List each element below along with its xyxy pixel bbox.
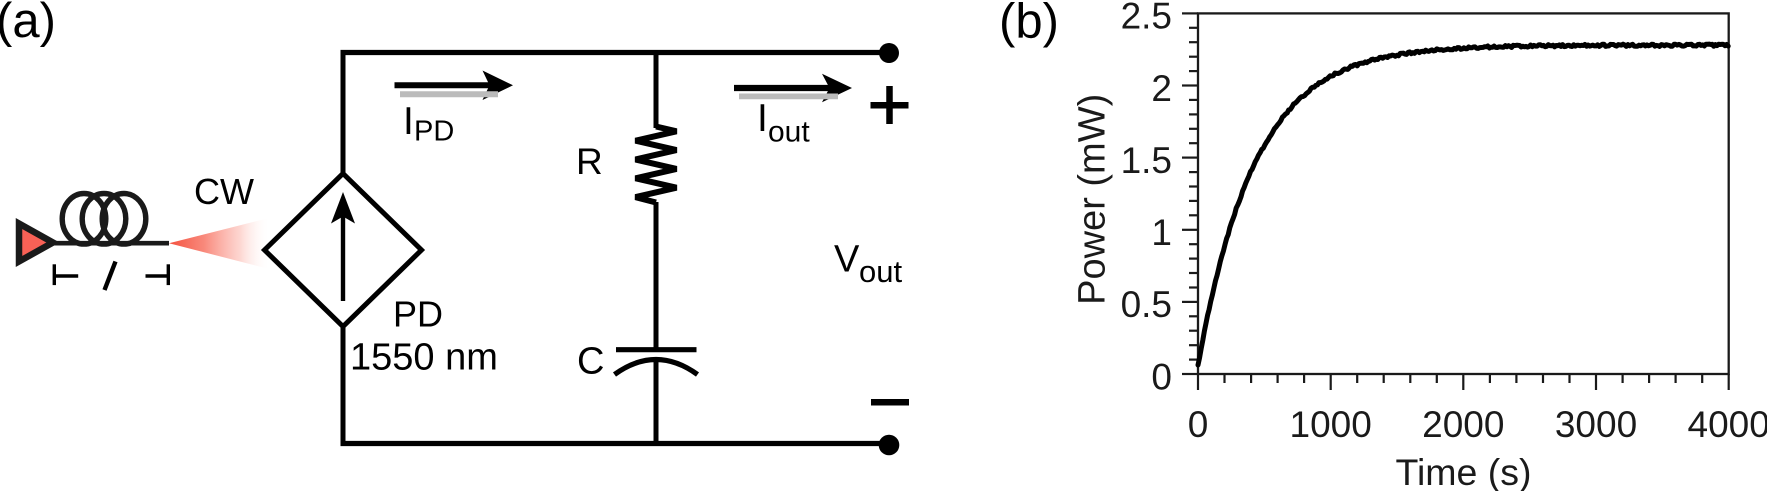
fiber coil loop 3 (102, 194, 146, 245)
capacitor C bottom curved plate (615, 360, 698, 375)
chart ticks (1182, 13, 1729, 390)
wire: middle branch between R and C (654, 202, 659, 348)
svg-text:R: R (576, 141, 603, 182)
svg-text:I: I (403, 100, 414, 143)
chart y tick labels (1121, 0, 1172, 397)
svg-text:3000: 3000 (1555, 404, 1637, 445)
output terminal bottom node (879, 435, 900, 456)
wire: middle branch upper (654, 53, 659, 129)
power rise data curve (1198, 44, 1728, 365)
IPD arrow gray shadow (400, 91, 498, 97)
svg-text:2: 2 (1151, 68, 1172, 109)
svg-text:1000: 1000 (1290, 404, 1372, 445)
minus symbol (871, 399, 909, 406)
svg-text:PD: PD (414, 116, 454, 148)
current source arrow (341, 208, 345, 301)
wire: top rail (341, 50, 890, 55)
fiber length marker right tick (146, 264, 169, 285)
laser source triangle (19, 224, 53, 262)
svg-text:2000: 2000 (1422, 404, 1504, 445)
svg-text:2.5: 2.5 (1121, 0, 1172, 37)
chart axes box (1198, 13, 1729, 374)
plus symbol (871, 86, 909, 124)
svg-text:0.5: 0.5 (1121, 284, 1172, 325)
Iout arrow gray shadow (739, 94, 838, 100)
fiber pigtail line (53, 241, 169, 246)
svg-text:Power (mW): Power (mW) (1072, 94, 1114, 305)
wire: bottom rail (341, 441, 890, 446)
fiber length label l (105, 262, 116, 291)
laser beam (169, 219, 267, 269)
wire: middle branch lower (654, 360, 659, 447)
wire: left vertical bottom (diamond to bottom rail) (341, 324, 346, 446)
fiber coil loop 1 (62, 194, 106, 245)
svg-text:C: C (577, 341, 604, 383)
svg-text:PD: PD (393, 294, 443, 335)
svg-text:V: V (834, 239, 860, 281)
IPD current arrow (395, 82, 493, 88)
fiber length marker left tick (54, 264, 78, 285)
chart x tick labels (1188, 404, 1767, 445)
svg-text:(b): (b) (999, 0, 1059, 49)
svg-text:I: I (757, 97, 768, 140)
svg-text:1550 nm: 1550 nm (350, 337, 498, 379)
resistor R (636, 127, 677, 203)
svg-text:0: 0 (1188, 404, 1209, 445)
svg-text:out: out (768, 116, 810, 149)
current source diamond PD (265, 174, 422, 327)
fiber coil loop 2 (82, 194, 126, 245)
svg-text:CW: CW (194, 171, 254, 212)
wire: left vertical top (diamond to top rail) (341, 50, 346, 176)
svg-text:out: out (859, 254, 902, 289)
capacitor C top plate (616, 347, 697, 352)
Iout current arrow (734, 85, 831, 91)
svg-text:0: 0 (1151, 356, 1172, 397)
svg-text:1.5: 1.5 (1121, 140, 1172, 181)
svg-text:1: 1 (1151, 212, 1172, 253)
output terminal top node (879, 43, 899, 63)
svg-text:Time (s): Time (s) (1395, 451, 1531, 491)
svg-text:4000: 4000 (1688, 404, 1767, 445)
svg-text:(a): (a) (0, 0, 56, 48)
